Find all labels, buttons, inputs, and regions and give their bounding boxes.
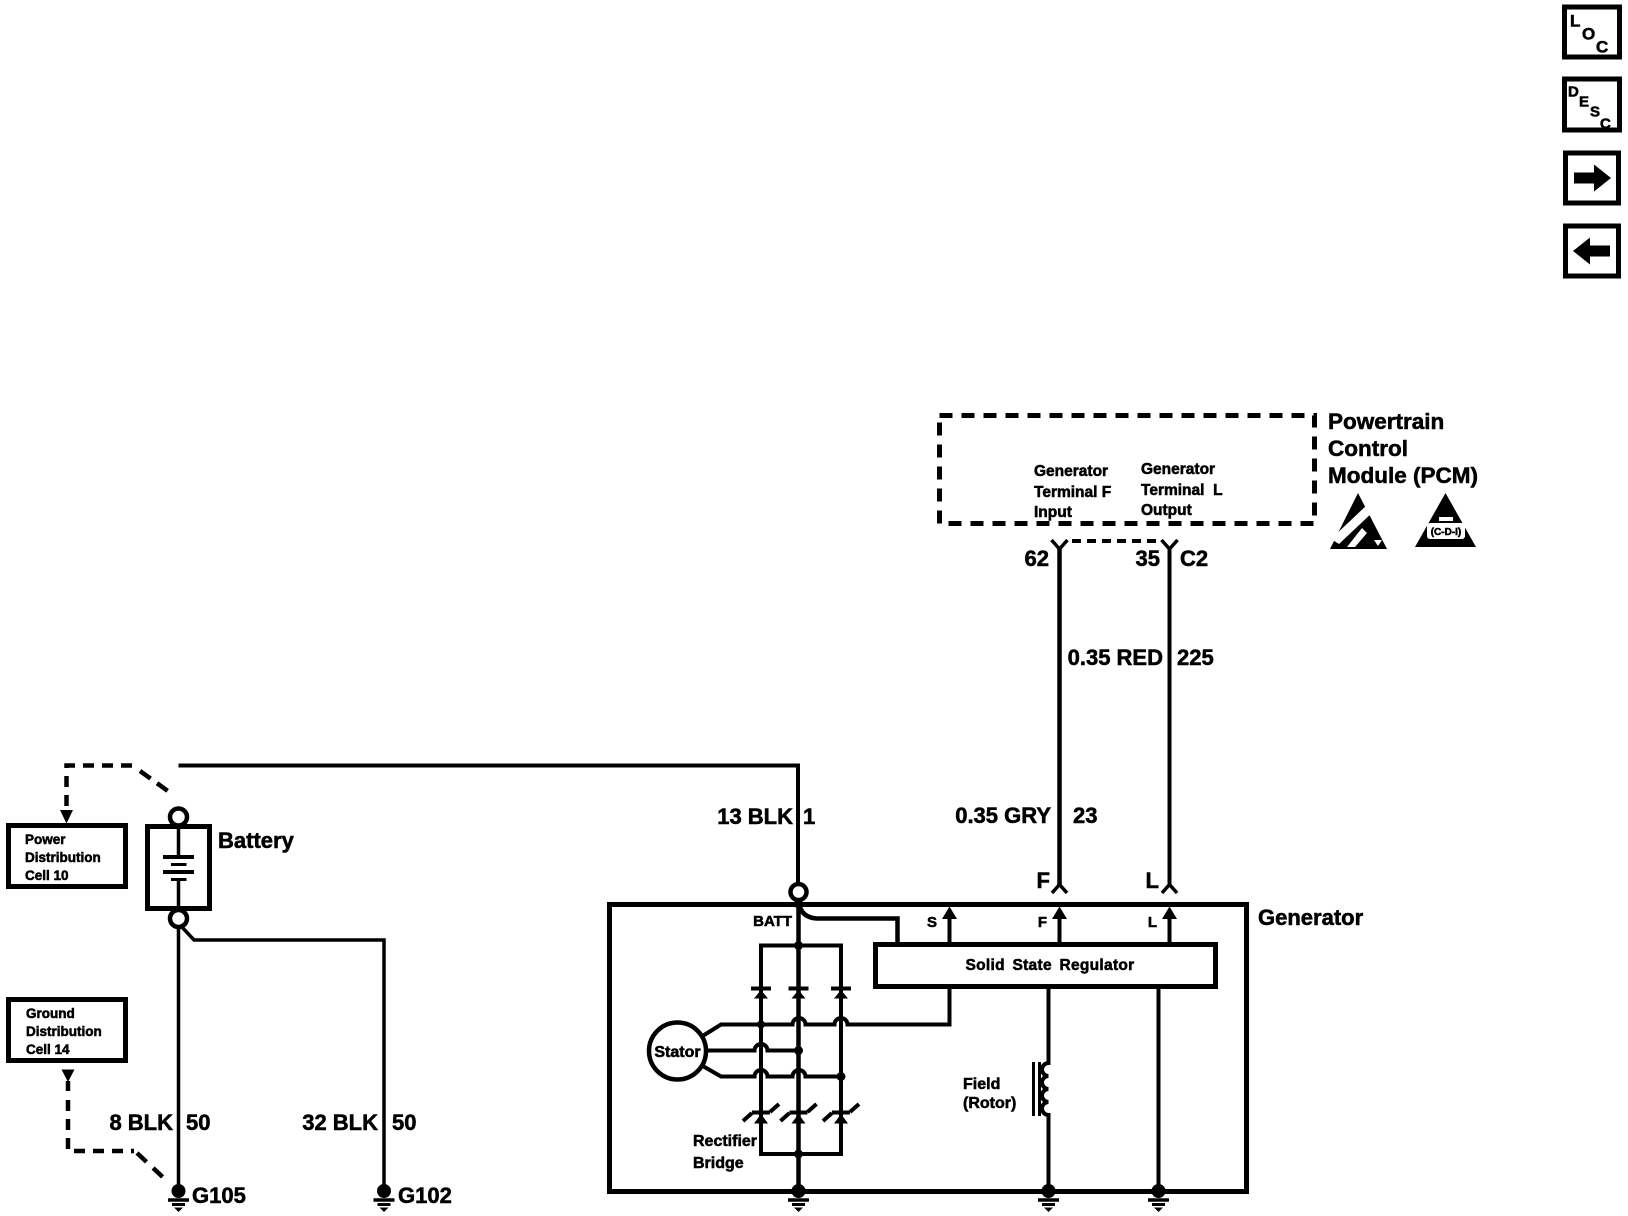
ground G102: [374, 1184, 395, 1212]
rectifier bridge right column: [839, 944, 843, 1157]
regulator terminal arrow F: [1038, 907, 1067, 945]
nav icon forward arrow: [1566, 153, 1619, 203]
svg-text:L: L: [1146, 868, 1159, 893]
svg-text:D: D: [1568, 84, 1579, 101]
wire 8 BLK 50 battery to G105: [177, 927, 181, 1185]
ground distribution cell 14 box: [9, 1000, 126, 1061]
stator bottom winding wire: [701, 1065, 841, 1077]
battery negative terminal circle: [170, 910, 187, 927]
svg-text:Distribution: Distribution: [26, 1024, 102, 1039]
wire regulator L driver to ground: [1157, 986, 1161, 1192]
dashed reference to ground distribution: [62, 1070, 168, 1182]
avalanche diode lower right: [823, 1104, 859, 1124]
svg-text:C2: C2: [1180, 546, 1208, 571]
svg-text:Solid State Regulator: Solid State Regulator: [965, 957, 1134, 974]
stator middle winding wire: [706, 1044, 799, 1051]
wire BATT to regulator (S feed): [800, 905, 898, 945]
svg-text:O: O: [1582, 25, 1595, 44]
wire 0.35 RED 225 (terminal L): [1168, 548, 1172, 885]
delta warning triangle icon: [1415, 493, 1476, 547]
pin 35 connector Y: [1162, 540, 1178, 549]
svg-text:8 BLK: 8 BLK: [109, 1110, 173, 1135]
svg-text:23: 23: [1073, 803, 1097, 828]
svg-text:(C-D-I): (C-D-I): [1431, 527, 1462, 538]
ground symbol at field column: [1038, 1184, 1059, 1212]
avalanche diode lower left: [743, 1104, 779, 1124]
diode upper left: [751, 989, 771, 999]
svg-text:Distribution: Distribution: [25, 850, 101, 865]
svg-text:50: 50: [392, 1110, 416, 1135]
svg-text:Generator: Generator: [1258, 905, 1364, 930]
svg-text:Generator: Generator: [1141, 461, 1215, 478]
nav icon LOC: [1565, 7, 1620, 57]
svg-text:L: L: [1570, 12, 1580, 31]
connector C2 dashed face: [1072, 539, 1160, 543]
battery positive terminal circle: [170, 809, 187, 826]
svg-text:Bridge: Bridge: [693, 1155, 744, 1172]
svg-text:0.35 RED: 0.35 RED: [1068, 645, 1163, 670]
svg-text:L: L: [1148, 914, 1157, 931]
power distribution cell 10 box: [9, 826, 126, 887]
svg-text:F: F: [1037, 868, 1050, 893]
svg-text:225: 225: [1177, 645, 1214, 670]
pin 62 connector Y: [1052, 540, 1068, 549]
svg-text:62: 62: [1025, 546, 1049, 571]
svg-text:G105: G105: [192, 1183, 246, 1208]
PCM dashed box: [940, 416, 1315, 524]
rectifier bridge centre column (BATT output): [796, 904, 801, 1192]
svg-text:Cell 10: Cell 10: [25, 868, 69, 883]
svg-text:Cell 14: Cell 14: [26, 1042, 70, 1057]
svg-text:Field: Field: [963, 1076, 1000, 1093]
junction dot stator top wire / left column: [757, 1021, 765, 1029]
ground symbol at BATT column: [788, 1184, 809, 1212]
field rotor core bars: [1032, 1062, 1035, 1116]
rectifier bridge bottom bus: [759, 1152, 843, 1156]
svg-text:BATT: BATT: [753, 913, 792, 930]
avalanche diode lower centre: [781, 1104, 817, 1124]
PCM pin label Generator Terminal F Input: [1034, 463, 1111, 521]
battery cell symbol: [163, 829, 194, 906]
svg-text:0.35 GRY: 0.35 GRY: [955, 803, 1051, 828]
svg-text:32 BLK: 32 BLK: [302, 1110, 378, 1135]
svg-text:C: C: [1596, 38, 1608, 57]
battery box: [148, 827, 210, 909]
diode upper right: [831, 989, 851, 999]
dashed reference to power distribution: [60, 766, 172, 824]
junction dot bridge top bus: [794, 941, 803, 950]
wire 0.35 GRY 23 (terminal F): [1057, 548, 1062, 885]
svg-text:F: F: [1038, 914, 1047, 931]
field rotor coil wire: [1042, 986, 1049, 1192]
svg-text:Stator: Stator: [654, 1044, 700, 1061]
field rotor label: [963, 1076, 1016, 1112]
svg-text:35: 35: [1136, 546, 1160, 571]
connector fork at generator terminal F: [1052, 885, 1067, 894]
PCM pin label Generator Terminal L Output: [1141, 461, 1223, 519]
svg-text:Battery: Battery: [218, 828, 295, 853]
svg-text:Power: Power: [25, 832, 66, 847]
svg-text:Powertrain: Powertrain: [1328, 409, 1444, 434]
ESD warning triangle icon: [1330, 493, 1387, 549]
junction dot L driver ground: [1154, 1187, 1163, 1196]
svg-text:Terminal F: Terminal F: [1034, 484, 1111, 501]
BATT junction dot: [794, 900, 803, 909]
regulator terminal arrow S: [927, 907, 957, 945]
stator top winding wire to S sense: [701, 987, 950, 1037]
svg-text:(Rotor): (Rotor): [963, 1095, 1016, 1112]
svg-text:Module (PCM): Module (PCM): [1328, 463, 1478, 488]
nav icon DESC: [1565, 79, 1620, 133]
svg-text:Terminal L: Terminal L: [1141, 482, 1223, 499]
junction dot bridge bottom bus: [794, 1150, 803, 1159]
rectifier bridge top bus: [759, 944, 843, 948]
connector fork at generator terminal L: [1162, 885, 1177, 894]
junction dot stator middle wire / centre column: [794, 1046, 803, 1055]
svg-text:C: C: [1600, 116, 1611, 133]
rectifier bridge label: [693, 1133, 757, 1172]
svg-text:Generator: Generator: [1034, 463, 1108, 480]
svg-text:Output: Output: [1141, 502, 1192, 519]
svg-text:Rectifier: Rectifier: [693, 1133, 757, 1150]
ground symbol at L driver column: [1148, 1184, 1169, 1212]
svg-text:E: E: [1579, 94, 1589, 111]
regulator terminal arrow L: [1148, 907, 1177, 945]
BATT terminal circle: [791, 884, 807, 900]
svg-text:Ground: Ground: [26, 1006, 75, 1021]
svg-text:S: S: [1590, 104, 1600, 121]
svg-text:Control: Control: [1328, 436, 1408, 461]
rectifier bridge left column: [759, 944, 763, 1157]
nav icon back arrow: [1566, 226, 1619, 276]
stator circle: [649, 1023, 706, 1080]
junction dot stator bottom wire / right column: [837, 1072, 846, 1081]
PCM title Powertrain Control Module (PCM): [1328, 409, 1478, 488]
svg-text:Input: Input: [1034, 504, 1072, 521]
svg-text:G102: G102: [398, 1183, 452, 1208]
generator box: [610, 905, 1247, 1192]
diode upper centre: [789, 989, 809, 999]
wire 32 BLK 50 battery to G102: [180, 925, 384, 1185]
svg-text:S: S: [927, 914, 937, 931]
wire 13 BLK 1 from battery to BATT terminal: [179, 766, 799, 885]
svg-text:1: 1: [803, 804, 815, 829]
regulator U1 Solid State Regulator: [876, 945, 1216, 987]
svg-text:13 BLK: 13 BLK: [717, 804, 793, 829]
ground G105: [168, 1184, 189, 1212]
junction dot field ground: [1044, 1187, 1053, 1196]
svg-text:50: 50: [186, 1110, 210, 1135]
